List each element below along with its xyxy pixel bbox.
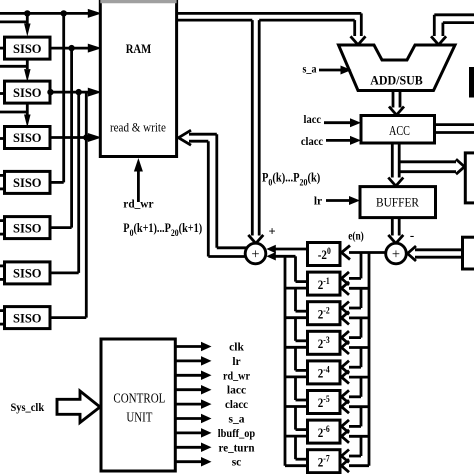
- wire control output re_turn: [175, 443, 211, 453]
- label lr: [232, 356, 240, 368]
- wire control output lbuff_op: [175, 428, 211, 438]
- wire SISO5 output riser: [50, 48, 72, 228]
- block right edge top: [469, 67, 474, 98]
- block shifter 2^-7: [308, 450, 341, 473]
- block SISO1: [5, 37, 51, 59]
- label rd_wr: [123, 199, 153, 211]
- wire staircase into 2^-6 top: [342, 407, 362, 433]
- label P0(k)...P20(k): [262, 172, 320, 188]
- svg-text:clacc: clacc: [301, 136, 323, 148]
- wire SISO5 left stubs: [0, 221, 5, 235]
- wire SISO4 left stubs: [0, 175, 5, 189]
- label sc: [232, 457, 242, 469]
- wire 2^-5 output stubs: [285, 377, 308, 407]
- wire e(n) long vertical: [342, 253, 370, 473]
- svg-text:SISO: SISO: [13, 85, 42, 100]
- wire rd_wr arrow into RAM: [134, 158, 143, 202]
- svg-text:BUFFER: BUFFER: [376, 195, 419, 210]
- label lacc: [304, 114, 322, 126]
- wire control output clacc: [175, 399, 211, 409]
- wire e(n) tap into 2^-6 bottom: [342, 430, 370, 443]
- block right edge input register: [463, 237, 474, 269]
- svg-text:+: +: [251, 246, 259, 262]
- wire staircase into 2^-3 top: [342, 318, 362, 344]
- svg-text:s_a: s_a: [229, 414, 245, 426]
- svg-text:ACC: ACC: [389, 123, 410, 138]
- label clacc: [301, 136, 323, 148]
- bus P(k+1) feedback adder to RAM: [179, 130, 247, 256]
- block shifter -2^0: [308, 243, 341, 266]
- block SISO5: [5, 217, 51, 239]
- wire control output clk: [175, 342, 211, 352]
- block SISO6: [5, 262, 51, 284]
- svg-text:SISO: SISO: [13, 310, 42, 325]
- block SISO7: [5, 307, 51, 329]
- wire SISO4 output riser: [50, 13, 64, 182]
- wire 2^-1 output stubs: [285, 256, 308, 288]
- wire 2^-3 output stubs: [285, 318, 308, 348]
- wire SISO7 output riser: [50, 92, 86, 318]
- svg-text:RAM: RAM: [126, 41, 152, 56]
- wire staircase into 2^-1 top: [342, 253, 362, 285]
- svg-text:+: +: [392, 246, 400, 262]
- wire staircase into 2^-5 top: [342, 377, 362, 403]
- svg-text:e(n): e(n): [348, 231, 364, 243]
- svg-text:lr: lr: [314, 195, 322, 207]
- wire right adder output to -2^0: [342, 246, 386, 260]
- wire SISO3 left stub: [0, 137, 5, 140]
- label Sys_clk: [10, 400, 44, 414]
- svg-text:lr: lr: [232, 356, 240, 368]
- label re_turn: [219, 442, 256, 454]
- svg-text:clacc: clacc: [225, 399, 248, 411]
- label e(n): [348, 231, 364, 243]
- label lacc: [227, 385, 246, 397]
- label plus left adder: [268, 225, 275, 239]
- svg-text:rd_wr: rd_wr: [223, 370, 250, 382]
- wire SISO1 left stub: [0, 47, 5, 50]
- block shifter 2^-2: [308, 302, 341, 325]
- wire SISO6 left stubs: [0, 266, 5, 280]
- block CONTROL UNIT: [101, 339, 175, 471]
- bus ACC output right: [435, 125, 474, 133]
- wire input stub upper-left: [0, 20, 27, 23]
- svg-text:-: -: [410, 228, 414, 243]
- bus ACC branch to right block: [399, 159, 464, 174]
- block shifter 2^-1: [308, 272, 341, 295]
- label s_a: [303, 64, 317, 76]
- wire e(n) tap into 2^-3 bottom: [342, 341, 370, 354]
- wire lr arrow: [326, 196, 360, 205]
- arrow Sys_clk block arrow: [57, 391, 100, 423]
- label clk: [229, 342, 244, 354]
- wire e(n) tap into 2^-1 bottom: [342, 282, 370, 295]
- wire e(n) tap into 2^-2 bottom: [342, 311, 370, 324]
- adder right plus: [386, 243, 407, 264]
- wire control output sc: [175, 457, 211, 467]
- block ACC: [361, 116, 435, 144]
- wire chain SISO1-SISO2: [0, 59, 31, 82]
- svg-text:rd_wr: rd_wr: [123, 199, 153, 211]
- svg-text:+: +: [268, 225, 275, 239]
- wire shifter outputs bus to left adder: [266, 252, 295, 466]
- wire staircase into 2^-4 top: [342, 348, 362, 374]
- block ADD/SUB alu: [339, 45, 456, 91]
- label P0(k+1)...P20(k+1): [123, 222, 202, 238]
- block shifter 2^-3: [308, 331, 341, 354]
- wire -2^0 output to left adder: [266, 245, 307, 254]
- wire SISO7 left stubs: [0, 311, 5, 325]
- block shifter 2^-4: [308, 361, 341, 384]
- wire lacc arrow: [324, 118, 361, 127]
- block BUFFER: [360, 187, 436, 218]
- wire chain SISO2-SISO3: [0, 103, 31, 127]
- svg-text:Sys_clk: Sys_clk: [10, 400, 44, 414]
- wire 2^-2 output stubs: [285, 288, 308, 318]
- svg-text:clk: clk: [229, 342, 244, 354]
- svg-text:SISO: SISO: [13, 130, 42, 145]
- block SISO4: [5, 171, 51, 193]
- wire SISO3 output to RAM: [50, 133, 102, 142]
- wire SISO1 output to RAM: [50, 44, 102, 53]
- label s_a: [229, 414, 245, 426]
- block SISO3: [5, 127, 51, 149]
- wire SISO6 output riser: [50, 92, 79, 273]
- wire e(n) tap into 2^-5 bottom: [342, 400, 370, 413]
- wire control output lacc: [175, 385, 211, 395]
- bus error input to right adder: [408, 246, 463, 261]
- wire staircase into 2^-7 top: [342, 436, 362, 462]
- label minus right adder: [410, 228, 414, 243]
- svg-text:SISO: SISO: [13, 220, 42, 235]
- wire 2^-7 output stubs: [285, 436, 308, 466]
- wire staircase into 2^-2 top: [342, 288, 362, 314]
- wire e(n) tap into 2^-4 bottom: [342, 371, 370, 384]
- bus ADD/SUB to ACC: [389, 91, 404, 116]
- wire SISO2 left stub: [0, 92, 5, 95]
- block RAM: [100, 2, 176, 157]
- adder left plus: [245, 243, 266, 264]
- svg-text:s_a: s_a: [303, 64, 317, 76]
- label clacc: [225, 399, 248, 411]
- wire control output rd_wr: [175, 371, 211, 381]
- svg-text:read & write: read & write: [110, 120, 166, 134]
- label lr: [314, 195, 322, 207]
- svg-text:sc: sc: [232, 457, 242, 469]
- bus ACC to BUFFER: [388, 143, 403, 186]
- block shifter 2^-6: [308, 420, 341, 443]
- wire chain arrow into SISO1: [24, 13, 31, 36]
- wire 2^-6 output stubs: [285, 407, 308, 437]
- svg-text:CONTROL: CONTROL: [113, 391, 165, 406]
- svg-text:ADD/SUB: ADD/SUB: [370, 72, 423, 87]
- svg-text:SISO: SISO: [13, 175, 42, 190]
- block SISO2: [5, 81, 51, 103]
- bus RAM output to ADD/SUB: [177, 13, 366, 44]
- wire SISO2 output to RAM: [47, 88, 102, 97]
- bus BUFFER to right adder: [388, 218, 403, 244]
- wire input bus to RAM row1: [0, 9, 102, 18]
- label rd_wr: [223, 370, 250, 382]
- block shifter 2^-5: [308, 391, 341, 414]
- block right edge output register: [465, 153, 474, 203]
- svg-text:SISO: SISO: [13, 41, 42, 56]
- wire control output s_a: [175, 414, 211, 424]
- wire 2^-4 output stubs: [285, 347, 308, 377]
- svg-text:UNIT: UNIT: [126, 411, 152, 426]
- wire control output lr: [175, 356, 211, 366]
- label lbuff_op: [218, 428, 255, 440]
- svg-text:lbuff_op: lbuff_op: [218, 428, 255, 440]
- wire clacc arrow: [326, 136, 361, 145]
- svg-text:lacc: lacc: [304, 114, 322, 126]
- svg-text:SISO: SISO: [13, 266, 42, 281]
- bus coefficient input to ADD/SUB: [431, 15, 474, 45]
- svg-text:re_turn: re_turn: [219, 442, 256, 454]
- wire s_a arrow: [319, 66, 352, 75]
- bus P(k) down to left adder: [248, 20, 263, 243]
- svg-text:lacc: lacc: [227, 385, 246, 397]
